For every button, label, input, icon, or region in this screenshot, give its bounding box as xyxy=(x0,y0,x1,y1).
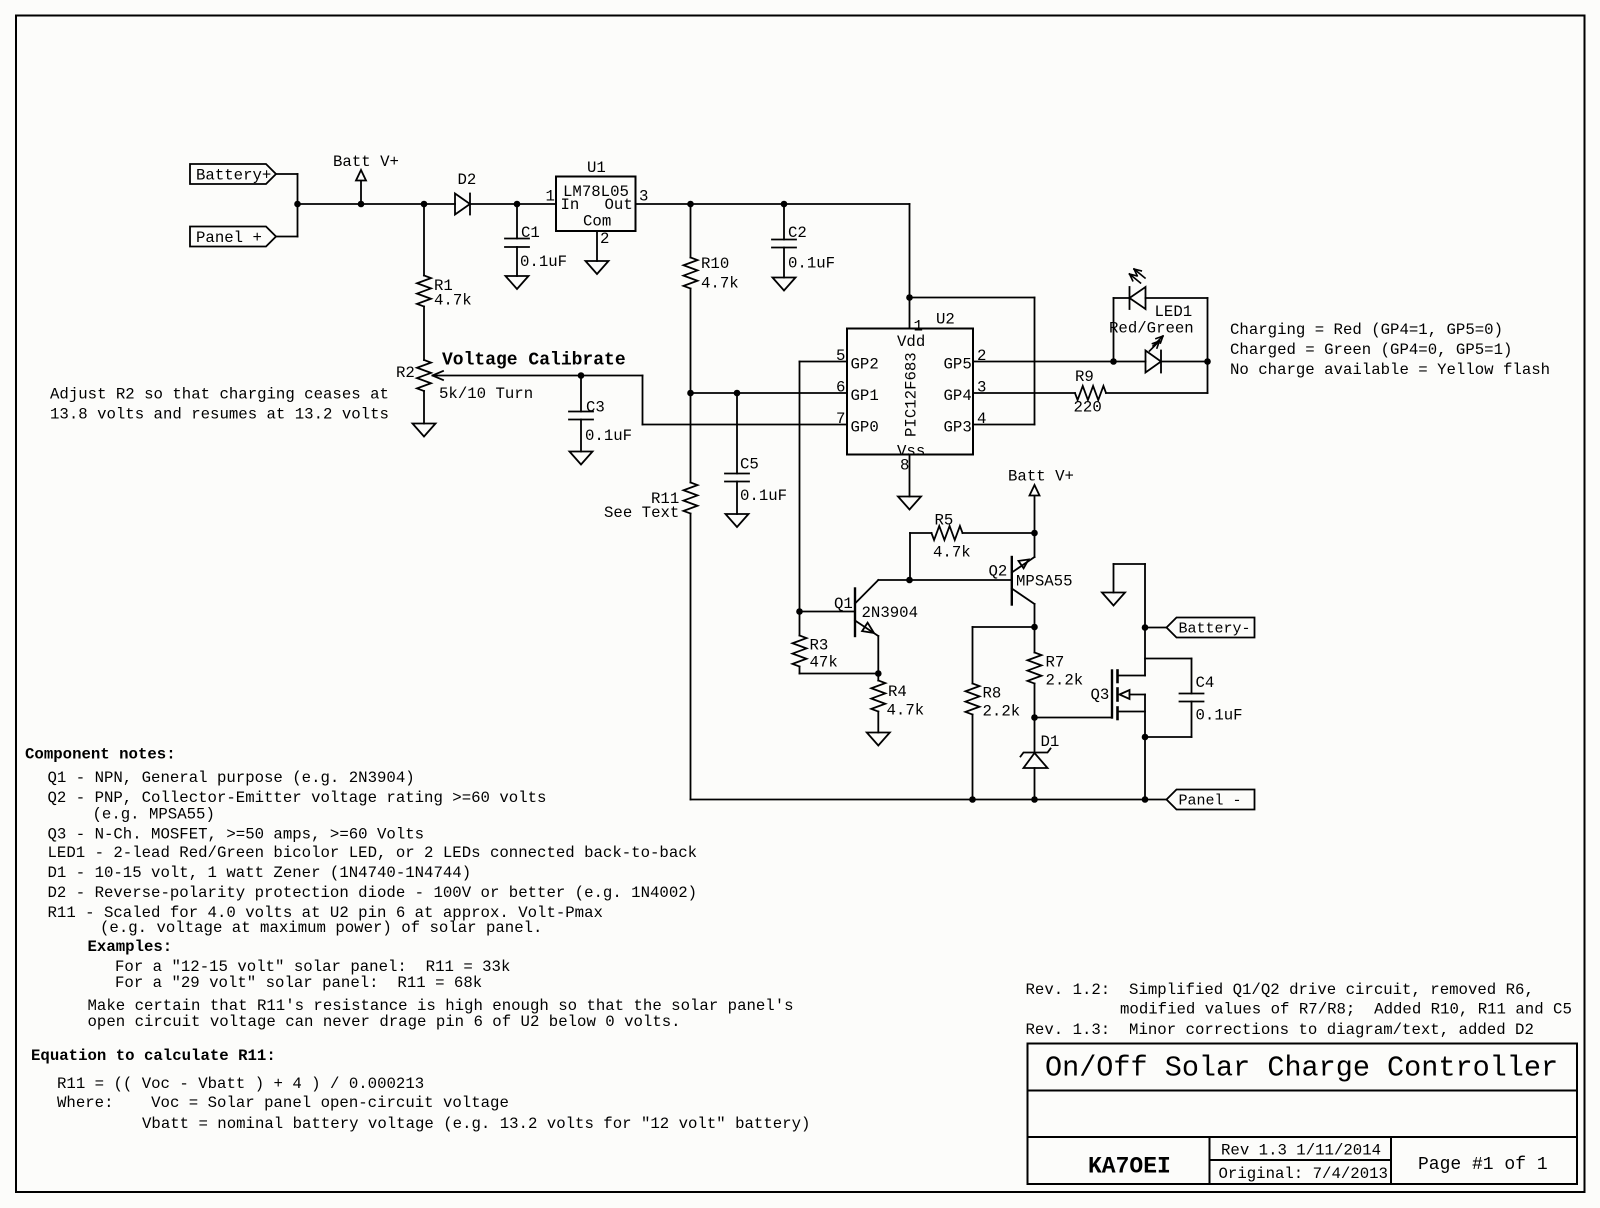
svg-text:Charging = Red (GP4=1, GP5=0): Charging = Red (GP4=1, GP5=0) xyxy=(1230,321,1503,339)
svg-text:Q3: Q3 xyxy=(1091,686,1110,704)
svg-text:R5: R5 xyxy=(935,512,954,530)
svg-text:2.2k: 2.2k xyxy=(983,703,1021,721)
capacitor C5 xyxy=(736,393,738,474)
wire GP1 pin xyxy=(691,392,848,394)
node Batt V+ tap xyxy=(358,201,365,208)
node gate junction xyxy=(1031,714,1038,721)
svg-text:Red/Green: Red/Green xyxy=(1109,320,1194,338)
node Q1 base junction xyxy=(796,608,803,615)
wire flag junction vertical xyxy=(297,174,299,237)
wire GP5 pin to LED1 xyxy=(973,361,1114,363)
svg-text:R7: R7 xyxy=(1046,654,1065,672)
svg-text:Rev 1.3 1/11/2014: Rev 1.3 1/11/2014 xyxy=(1221,1142,1381,1160)
svg-text:C1: C1 xyxy=(521,224,540,242)
node R10 tap xyxy=(687,201,694,208)
svg-text:GP5: GP5 xyxy=(944,356,972,374)
resistor R1 xyxy=(423,204,425,276)
node Battery- junction xyxy=(1142,624,1149,631)
resistor R9 xyxy=(1075,386,1106,400)
net flag Panel - xyxy=(1167,790,1255,810)
power symbol Batt V+ (top) xyxy=(356,170,366,181)
wire Q1 emitter down xyxy=(877,636,879,674)
svg-text:On/Off Solar Charge Controller: On/Off Solar Charge Controller xyxy=(1045,1052,1558,1085)
svg-text:GP0: GP0 xyxy=(851,419,879,437)
wire GP0 pin xyxy=(643,424,848,426)
svg-text:C2: C2 xyxy=(788,224,807,242)
ground below C2 xyxy=(773,278,796,291)
svg-text:1: 1 xyxy=(914,318,923,336)
svg-text:Original: 7/4/2013: Original: 7/4/2013 xyxy=(1219,1165,1388,1183)
wire Q2 collector to R8 xyxy=(973,626,1035,628)
svg-text:Equation to calculate R11:: Equation to calculate R11: xyxy=(31,1047,276,1065)
node R5 right junction xyxy=(1031,530,1038,537)
node R10/R11/GP1 junction xyxy=(687,390,694,397)
svg-text:Charged = Green (GP4=0, GP5=1): Charged = Green (GP4=0, GP5=1) xyxy=(1230,341,1512,359)
svg-text:Batt V+: Batt V+ xyxy=(1008,468,1074,486)
ground below U1 pin 2 xyxy=(586,261,609,274)
svg-text:LED1 - 2-lead Red/Green bicolo: LED1 - 2-lead Red/Green bicolor LED, or … xyxy=(48,844,698,862)
svg-text:47k: 47k xyxy=(810,654,838,672)
svg-text:Q1: Q1 xyxy=(834,595,853,613)
svg-text:U2: U2 xyxy=(936,311,955,329)
wire LED1 right rail xyxy=(1207,298,1209,393)
svg-text:2: 2 xyxy=(600,230,609,248)
ground below C1 xyxy=(506,276,529,289)
transistor U2 PIC12F683 box xyxy=(847,329,973,455)
ground below R4 xyxy=(867,733,890,746)
svg-text:Vbatt = nominal battery voltag: Vbatt = nominal battery voltage (e.g. 13… xyxy=(142,1115,810,1133)
transistor Q2 MPSA55 xyxy=(1011,557,1013,605)
node LED1 left junction xyxy=(1110,358,1117,365)
net flag Battery- xyxy=(1167,618,1255,638)
node D1 bottom junction xyxy=(1031,796,1038,803)
node Q1 collector junction xyxy=(906,577,913,584)
svg-text:MPSA55: MPSA55 xyxy=(1016,573,1072,591)
svg-text:4.7k: 4.7k xyxy=(933,544,971,562)
svg-text:C4: C4 xyxy=(1196,674,1215,692)
wire GP2 riser to Q1 base xyxy=(799,362,801,612)
node C3 tap xyxy=(578,372,585,379)
resistor R5 xyxy=(910,532,932,534)
ground below C5 xyxy=(726,514,749,527)
svg-text:C3: C3 xyxy=(586,399,605,417)
node R1 tap xyxy=(421,201,428,208)
svg-text:Adjust R2 so that charging cea: Adjust R2 so that charging ceases at xyxy=(50,386,389,404)
svg-text:open circuit voltage can never: open circuit voltage can never drage pin… xyxy=(88,1013,681,1031)
svg-text:GP1: GP1 xyxy=(851,387,879,405)
capacitor C1 xyxy=(516,204,518,239)
svg-text:Batt V+: Batt V+ xyxy=(333,153,399,171)
wire Panel+ flag to junction xyxy=(276,236,298,238)
svg-text:Component notes:: Component notes: xyxy=(25,746,176,764)
svg-text:KA7OEI: KA7OEI xyxy=(1088,1154,1171,1180)
wire R10 to GP1 node xyxy=(690,289,692,483)
op-amp U1 LM78L05 regulator box xyxy=(556,177,636,232)
svg-text:Q2: Q2 xyxy=(989,563,1008,581)
svg-text:GP3: GP3 xyxy=(944,419,972,437)
svg-text:Panel +: Panel + xyxy=(196,229,262,247)
svg-text:R3: R3 xyxy=(810,637,829,655)
svg-text:GP4: GP4 xyxy=(944,387,972,405)
diode D1 zener xyxy=(1034,718,1036,753)
svg-text:D2 - Reverse-polarity protecti: D2 - Reverse-polarity protection diode -… xyxy=(48,884,698,902)
svg-text:0.1uF: 0.1uF xyxy=(788,255,835,273)
wire gate node to Q3 gate xyxy=(1035,717,1113,719)
wire R2 wiper to GP0 xyxy=(433,375,643,377)
wire Vdd to GP3 riser xyxy=(910,297,1035,299)
svg-text:PIC12F683: PIC12F683 xyxy=(903,352,921,437)
node R8 bottom junction xyxy=(969,796,976,803)
wire Q1 collector to Q2 base xyxy=(878,579,1012,581)
svg-text:(e.g. voltage at maximum power: (e.g. voltage at maximum power) of solar… xyxy=(100,919,542,937)
resistor R4 xyxy=(877,674,879,681)
svg-text:R2: R2 xyxy=(396,364,415,382)
wire GP3 pin xyxy=(973,424,1035,426)
wire to Battery- flag xyxy=(1145,627,1167,629)
svg-text:D1 - 10-15 volt, 1 watt Zener: D1 - 10-15 volt, 1 watt Zener (1N4740-1N… xyxy=(48,864,472,882)
svg-text:0.1uF: 0.1uF xyxy=(520,253,567,271)
transistor Q1 2N3904 xyxy=(854,589,856,637)
svg-text:(e.g. MPSA55): (e.g. MPSA55) xyxy=(93,806,215,824)
svg-text:See Text: See Text xyxy=(604,504,679,522)
svg-text:GP2: GP2 xyxy=(851,356,879,374)
node LED1 right junction xyxy=(1204,358,1211,365)
svg-text:No charge available = Yellow f: No charge available = Yellow flash xyxy=(1230,361,1550,379)
resistor R8 xyxy=(972,627,974,684)
svg-text:R8: R8 xyxy=(983,685,1002,703)
node C4 bottom junction xyxy=(1142,734,1149,741)
svg-text:Page #1 of 1: Page #1 of 1 xyxy=(1418,1155,1548,1175)
svg-text:4.7k: 4.7k xyxy=(434,292,472,310)
diode D2 xyxy=(455,194,470,215)
svg-text:D1: D1 xyxy=(1041,733,1060,751)
wire U1 Com pin 2 stub xyxy=(596,231,598,261)
svg-text:Com: Com xyxy=(583,213,611,231)
svg-text:Out: Out xyxy=(605,196,633,214)
node R3/R4 junction xyxy=(875,670,882,677)
svg-text:Battery-: Battery- xyxy=(1179,621,1251,638)
node Vdd junction xyxy=(906,294,913,301)
svg-text:Where: Voc = Solar panel op: Where: Voc = Solar panel open-circuit vo… xyxy=(57,1094,509,1112)
wire main rail to D2 anode xyxy=(298,203,456,205)
svg-text:Voltage Calibrate: Voltage Calibrate xyxy=(442,351,626,371)
LED1 green emission arrows xyxy=(1150,341,1160,351)
svg-text:5k/10 Turn: 5k/10 Turn xyxy=(439,385,533,403)
ground at Q3 drain xyxy=(1114,563,1146,565)
svg-text:Q1 - NPN, General purpose (e.g: Q1 - NPN, General purpose (e.g. 2N3904) xyxy=(48,769,415,787)
potentiometer R2 xyxy=(417,360,431,391)
wire bottom rail to Panel- xyxy=(691,799,1167,801)
svg-text:LED1: LED1 xyxy=(1155,303,1193,321)
wire GP2 pin xyxy=(800,361,848,363)
capacitor C2 xyxy=(783,204,785,240)
node C1 tap xyxy=(514,201,521,208)
resistor R10 xyxy=(690,204,692,258)
svg-text:220: 220 xyxy=(1074,399,1102,417)
node Q3 source bottom junction xyxy=(1142,796,1149,803)
svg-text:Vdd: Vdd xyxy=(897,333,925,351)
wire U1 Out rail xyxy=(636,203,910,205)
svg-text:0.1uF: 0.1uF xyxy=(1196,707,1243,725)
ground below R2 xyxy=(413,424,436,437)
net flag Battery+ xyxy=(190,164,276,184)
svg-text:In: In xyxy=(561,196,580,214)
wire Vss stub xyxy=(909,455,911,497)
capacitor C3 xyxy=(580,376,582,412)
svg-text:0.1uF: 0.1uF xyxy=(585,427,632,445)
svg-text:R10: R10 xyxy=(701,255,729,273)
LED1 red emission arrows xyxy=(1130,274,1141,283)
svg-text:4.7k: 4.7k xyxy=(887,702,925,720)
wire Q3 source rail xyxy=(1144,695,1146,800)
svg-text:2N3904: 2N3904 xyxy=(862,604,918,622)
svg-text:Panel -: Panel - xyxy=(1179,793,1242,810)
net flag Panel + xyxy=(190,227,276,247)
svg-text:Battery+: Battery+ xyxy=(196,167,271,185)
wire LED1 left rail xyxy=(1113,298,1115,362)
svg-text:Rev. 1.2: Simplified Q1/Q2 dr: Rev. 1.2: Simplified Q1/Q2 drive circuit… xyxy=(1026,981,1534,999)
svg-text:Q2 - PNP, Collector-Emitter vo: Q2 - PNP, Collector-Emitter voltage rati… xyxy=(48,789,547,807)
title block frame xyxy=(1028,1044,1578,1185)
svg-text:R4: R4 xyxy=(888,683,907,701)
wire R9 to LED right rail xyxy=(1106,392,1208,394)
svg-text:8: 8 xyxy=(900,457,909,475)
LED1 green diode (points right) xyxy=(1114,361,1146,363)
node C5 tap xyxy=(734,390,741,397)
svg-text:3: 3 xyxy=(639,188,648,206)
power symbol Batt V+ (at Q2) xyxy=(1030,485,1040,496)
wire D2 cathode to U1 In xyxy=(470,203,556,205)
svg-text:C5: C5 xyxy=(740,456,759,474)
node C2 tap xyxy=(781,201,788,208)
ground below Vss xyxy=(898,497,921,510)
LED1 red diode (points left) xyxy=(1114,297,1130,299)
node Q2 collector junction xyxy=(1031,624,1038,631)
svg-text:R11 = (( Voc - Vbatt ) + 4 ) /: R11 = (( Voc - Vbatt ) + 4 ) / 0.000213 xyxy=(57,1075,424,1093)
svg-text:1: 1 xyxy=(546,188,555,206)
wire Vdd riser xyxy=(909,204,911,329)
capacitor C4 xyxy=(1145,658,1192,660)
svg-text:2.2k: 2.2k xyxy=(1046,672,1084,690)
svg-text:Q3 - N-Ch. MOSFET, >=50 amps,: Q3 - N-Ch. MOSFET, >=50 amps, >=60 Volts xyxy=(48,826,425,844)
svg-text:U1: U1 xyxy=(587,159,606,177)
transistor Q3 MOSFET xyxy=(1111,671,1113,718)
wire R5 left lead down xyxy=(909,533,911,580)
node flag junction xyxy=(294,201,301,208)
svg-text:For a "29 volt" solar panel:: For a "29 volt" solar panel: R11 = 68k xyxy=(115,974,482,992)
svg-text:modified values of R7/R8; Add: modified values of R7/R8; Added R10, R11… xyxy=(1120,1001,1572,1019)
wire GP4 pin to R9 xyxy=(973,392,1075,394)
svg-text:R9: R9 xyxy=(1075,368,1094,386)
svg-text:4: 4 xyxy=(977,410,986,428)
resistor R3 xyxy=(799,612,801,636)
resistor R7 xyxy=(1034,627,1036,653)
svg-text:Examples:: Examples: xyxy=(88,938,173,956)
svg-text:D2: D2 xyxy=(458,171,477,189)
svg-text:4.7k: 4.7k xyxy=(701,275,739,293)
svg-text:Rev. 1.3: Minor corrections t: Rev. 1.3: Minor corrections to diagram/t… xyxy=(1026,1021,1534,1039)
svg-text:13.8 volts and resumes at 13.2: 13.8 volts and resumes at 13.2 volts xyxy=(50,406,389,424)
wire Battery+ flag to junction xyxy=(276,173,298,175)
svg-text:0.1uF: 0.1uF xyxy=(740,487,787,505)
resistor R11 xyxy=(684,483,698,514)
wire Q3 drain rail xyxy=(1144,564,1146,676)
wire R11 to bottom rail xyxy=(690,514,692,800)
ground below C3 xyxy=(570,452,593,465)
